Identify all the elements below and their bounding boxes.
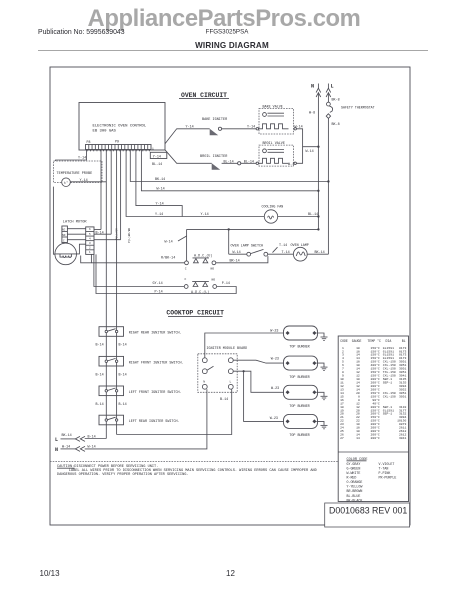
svg-text:R-RED: R-RED (347, 476, 357, 480)
svg-text:TEMPERATURE PROBE: TEMPERATURE PROBE (57, 172, 93, 176)
svg-text:OVEN LAMP: OVEN LAMP (291, 244, 309, 248)
svg-text:LEFT FRONT IGNITER SWITCH.: LEFT FRONT IGNITER SWITCH. (129, 391, 182, 395)
svg-text:LEFT REAR IGNITER SWITCH.: LEFT REAR IGNITER SWITCH. (129, 420, 180, 424)
svg-text:BK-BLACK: BK-BLACK (347, 498, 363, 502)
svg-text:B-14: B-14 (96, 373, 104, 377)
svg-text:RIGHT REAR IGNITER SWITCH.: RIGHT REAR IGNITER SWITCH. (129, 332, 182, 336)
svg-text:B-14: B-14 (119, 373, 127, 377)
svg-text:Publication No: 5995639043: Publication No: 5995639043 (38, 29, 125, 36)
svg-text:Y-14: Y-14 (80, 179, 88, 183)
svg-text:LATCH MOTOR: LATCH MOTOR (63, 220, 88, 224)
svg-text:Y-14: Y-14 (156, 202, 164, 206)
svg-text:W-WHITE: W-WHITE (347, 471, 361, 475)
svg-text:L: L (331, 84, 334, 90)
svg-text:V-VIOLET: V-VIOLET (379, 462, 395, 466)
svg-text:RIGHT FRONT IGNITER SWITCH.: RIGHT FRONT IGNITER SWITCH. (129, 361, 184, 365)
svg-text:Y-14: Y-14 (155, 213, 163, 217)
svg-text:t°: t° (64, 181, 68, 186)
svg-text:CODE: CODE (340, 339, 348, 343)
svg-text:14: 14 (356, 436, 360, 440)
svg-text:P9: P9 (115, 140, 119, 144)
svg-text:W-23: W-23 (271, 387, 279, 391)
svg-text:BAKE VALVE: BAKE VALVE (263, 105, 283, 109)
svg-text:BROIL IGNITER: BROIL IGNITER (200, 155, 228, 159)
svg-text:D0010683 REV 001: D0010683 REV 001 (329, 505, 407, 515)
svg-text:W-14: W-14 (165, 241, 173, 245)
svg-text:W-14: W-14 (306, 150, 314, 154)
svg-text:Y-14: Y-14 (78, 157, 86, 161)
svg-text:W-23: W-23 (270, 330, 278, 334)
svg-text:SEP-1: SEP-1 (383, 381, 392, 385)
svg-text:R/BK-14: R/BK-14 (161, 256, 175, 261)
svg-text:B-14: B-14 (88, 435, 96, 439)
svg-text:BK-14: BK-14 (155, 178, 165, 182)
svg-text:COOKTOP CIRCUIT: COOKTOP CIRCUIT (166, 310, 224, 317)
svg-text:DIA: DIA (386, 339, 392, 343)
svg-text:P(L)BK/BR: P(L)BK/BR (127, 228, 131, 243)
svg-text:SEP-1: SEP-1 (383, 412, 392, 416)
svg-text:3051: 3051 (399, 394, 407, 398)
svg-text:Y-14: Y-14 (247, 125, 255, 129)
svg-text:DANGEROUS OPERATION. VERIFY PR: DANGEROUS OPERATION. VERIFY PROPER OPERA… (57, 473, 189, 477)
svg-text:BL: BL (402, 339, 406, 343)
svg-text:TOP BURNER: TOP BURNER (289, 376, 309, 380)
svg-text:O-ORANGE: O-ORANGE (347, 480, 363, 484)
svg-text:TOP BURNER: TOP BURNER (289, 346, 309, 350)
svg-text:BL-BLUE: BL-BLUE (347, 494, 361, 498)
svg-text:BR-BROWN: BR-BROWN (347, 489, 363, 493)
svg-text:OVEN LAMP SWITCH: OVEN LAMP SWITCH (231, 244, 264, 248)
svg-text:EB 300 GAS: EB 300 GAS (93, 129, 117, 133)
svg-text:G-GREEN: G-GREEN (347, 466, 361, 470)
svg-text:B-14: B-14 (96, 344, 104, 348)
svg-text:WIRING DIAGRAM: WIRING DIAGRAM (195, 41, 269, 50)
svg-text:Y-YELLOW: Y-YELLOW (347, 485, 363, 489)
svg-text:GAUGE: GAUGE (352, 339, 362, 343)
svg-text:Y-14: Y-14 (201, 213, 209, 217)
svg-text:BL-14: BL-14 (224, 160, 234, 164)
svg-text:BK-14: BK-14 (62, 434, 72, 438)
svg-text:COOLING FAN: COOLING FAN (262, 205, 284, 209)
svg-text:NO: NO (211, 268, 215, 271)
svg-text:27: 27 (340, 436, 344, 440)
svg-text:PR-PURPLE: PR-PURPLE (379, 476, 397, 480)
svg-text:CXL-150: CXL-150 (383, 394, 396, 398)
svg-text:ELECTRONIC OVEN CONTROL: ELECTRONIC OVEN CONTROL (93, 124, 147, 128)
svg-text:P-14: P-14 (222, 282, 230, 286)
svg-text:T-TAN: T-TAN (379, 466, 389, 470)
svg-text:N: N (203, 380, 205, 383)
svg-text:W-23: W-23 (270, 417, 278, 421)
svg-text:P-PINK: P-PINK (379, 471, 391, 475)
svg-text:3041: 3041 (399, 436, 407, 440)
svg-text:NO: NO (62, 234, 66, 237)
svg-text:NC: NC (62, 228, 66, 231)
svg-text:A.D.C.(U): A.D.C.(U) (194, 254, 212, 259)
svg-text:TOP BURNER: TOP BURNER (289, 405, 309, 409)
svg-text:T-14: T-14 (279, 244, 287, 248)
svg-text:BK-8: BK-8 (332, 123, 340, 127)
svg-text:SAFETY THERMOSTAT: SAFETY THERMOSTAT (341, 105, 375, 109)
svg-text:10/13: 10/13 (40, 569, 61, 578)
svg-text:W-14: W-14 (157, 188, 165, 192)
svg-text:NO: NO (212, 279, 216, 282)
svg-text:GY-14: GY-14 (153, 282, 163, 286)
svg-text:B-14: B-14 (96, 232, 104, 236)
svg-text:FFGS3025PSA: FFGS3025PSA (206, 29, 250, 36)
svg-text:BAKE IGNITER: BAKE IGNITER (202, 118, 228, 122)
svg-text:B-14: B-14 (220, 398, 228, 402)
svg-text:BK-8: BK-8 (332, 99, 340, 103)
svg-text:TEMP °C: TEMP °C (368, 339, 381, 343)
svg-text:BL-14: BL-14 (152, 163, 162, 167)
svg-text:P(L)/GY: P(L)/GY (115, 228, 119, 240)
svg-text:TOP BURNER: TOP BURNER (289, 434, 309, 438)
svg-text:OVEN CIRCUIT: OVEN CIRCUIT (181, 92, 227, 99)
svg-text:P8: P8 (87, 140, 91, 144)
svg-text:W-14: W-14 (88, 445, 96, 449)
svg-text:Y-14: Y-14 (153, 155, 161, 159)
svg-text:BROIL VALVE: BROIL VALVE (263, 142, 285, 146)
svg-text:L: L (55, 437, 58, 443)
svg-text:B-14: B-14 (119, 344, 127, 348)
svg-text:C: C (185, 268, 187, 271)
svg-text:A.D.C.(L): A.D.C.(L) (191, 290, 209, 295)
svg-text:C: C (185, 278, 187, 281)
svg-text:B-14: B-14 (119, 403, 127, 407)
svg-text:T-14: T-14 (282, 251, 290, 255)
svg-text:L: L (230, 380, 232, 383)
svg-text:GY-GRAY: GY-GRAY (347, 462, 361, 466)
svg-text:N: N (55, 447, 58, 453)
svg-text:BK-14: BK-14 (315, 251, 325, 255)
svg-text:W-8: W-8 (309, 112, 315, 116)
svg-text:W-23: W-23 (271, 358, 279, 362)
svg-text:Y-14: Y-14 (186, 125, 194, 129)
svg-text:1: 1 (152, 147, 154, 150)
svg-text:IGNITER MODULE BOARD: IGNITER MODULE BOARD (207, 347, 248, 351)
svg-text:B-14: B-14 (96, 403, 104, 407)
svg-text:BR-14: BR-14 (230, 259, 240, 263)
svg-text:P-14: P-14 (155, 291, 163, 295)
svg-text:200°C: 200°C (371, 436, 380, 440)
svg-text:BL-14: BL-14 (244, 160, 254, 164)
svg-text:N: N (311, 84, 314, 90)
svg-text:12: 12 (226, 569, 235, 578)
svg-text:BL-14: BL-14 (308, 213, 318, 217)
